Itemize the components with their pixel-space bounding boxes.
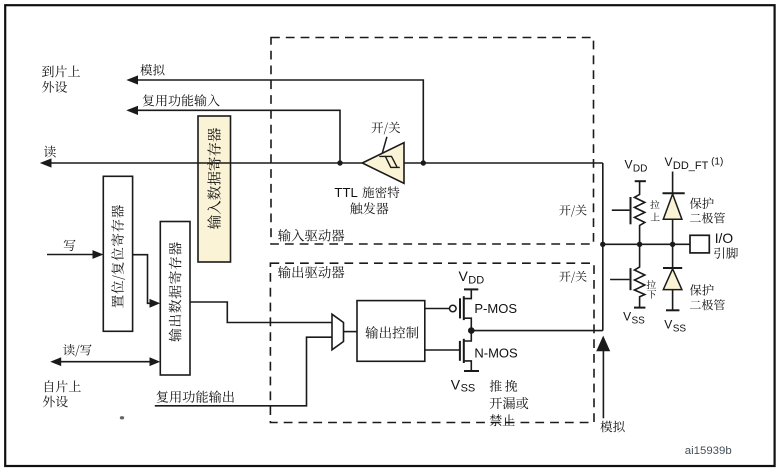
stray dot mark [120, 416, 124, 419]
label VSS (N-MOS) [451, 376, 475, 394]
label 外设 (top) [42, 81, 67, 93]
label 复用功能输入 [143, 94, 220, 106]
label 自片上 [45, 380, 81, 392]
label VSS (diode) [664, 317, 686, 334]
svg-text:(1): (1) [711, 156, 723, 167]
wire: output control to N-MOS gate [425, 349, 460, 351]
label 外设 (bottom) [43, 396, 68, 408]
label 输出数据寄存器 (rotated) [169, 242, 182, 342]
wire: write arrow 写 [47, 254, 94, 256]
label 二极管 (upper) [690, 212, 725, 223]
label I/O [715, 231, 734, 246]
label 上 (pull-up) [651, 213, 660, 221]
svg-text:V: V [665, 155, 673, 169]
wire: output data register to mux [190, 302, 332, 323]
label 模拟 (top) [140, 64, 164, 76]
label ai15939b [685, 445, 732, 457]
arrowhead into output data register [150, 299, 161, 308]
svg-text:SS: SS [673, 323, 687, 334]
set/reset register box 置位/复位寄存器 [103, 176, 132, 331]
svg-text:DD_FT: DD_FT [673, 160, 709, 172]
output control box 输出控制 [357, 301, 425, 362]
arrowhead analog left [126, 75, 138, 84]
wire: output stage to IO vertical [471, 330, 603, 332]
arrowhead read left [40, 158, 52, 167]
wire: right vertical bus [602, 163, 604, 331]
wire: schmitt input to right vertical [404, 162, 603, 164]
label 触发器 [350, 202, 388, 214]
label 输出驱动器 [278, 266, 344, 279]
schmitt on/off switch line [382, 137, 387, 154]
arrowhead AF input left [126, 106, 138, 115]
svg-text:V: V [664, 317, 672, 331]
label 开/关 (pull-up) [559, 205, 586, 217]
protection diode upper (VDD_FT) [663, 172, 685, 245]
svg-text:TTL: TTL [334, 185, 357, 200]
node diode [670, 242, 675, 247]
svg-text:V: V [459, 268, 469, 284]
label 拉 (pull-up) [650, 200, 659, 209]
arrowhead analog up [596, 336, 610, 352]
label 保护 (upper) [690, 198, 714, 209]
label N-MOS [474, 346, 518, 361]
svg-text:V: V [625, 158, 633, 172]
arrowhead write [93, 250, 104, 259]
label P-MOS [474, 301, 517, 316]
node analog tap [421, 160, 426, 165]
svg-text:DD: DD [468, 275, 484, 287]
pull-up resistor with switch (VDD) [612, 181, 646, 244]
label 输入驱动器 [278, 229, 344, 242]
svg-text:P-MOS: P-MOS [474, 301, 517, 316]
label 输出控制 [365, 326, 418, 339]
wire: analog bottom vertical 模拟 [602, 351, 604, 419]
wire: alternate function input 复用功能输入 [137, 110, 340, 163]
output data register box 输出数据寄存器 [160, 222, 190, 376]
schmitt hysteresis symbol [379, 156, 400, 167]
protection diode lower (VSS) [663, 244, 682, 310]
svg-text:V: V [451, 376, 461, 392]
I/O pin square [690, 235, 709, 253]
label 读 [44, 146, 56, 158]
label 施密特 [362, 186, 399, 198]
label 开/关 (schmitt) [371, 122, 400, 135]
output driver dashed box 输出驱动器 [270, 263, 594, 422]
label 拉 (pull-down) [647, 280, 656, 289]
svg-text:I/O: I/O [715, 231, 734, 246]
TTL schmitt trigger triangle [362, 143, 404, 184]
label 复用功能输出 [157, 390, 234, 402]
wire: output control to P-MOS gate [425, 308, 450, 310]
label 模拟 (bottom) [600, 421, 624, 433]
label 读/写 [63, 344, 91, 357]
input driver dashed box 输入驱动器 [271, 38, 594, 245]
svg-text:SS: SS [632, 315, 646, 326]
mux trapezoid [332, 314, 344, 350]
wire: read/write double arrow 读/写 [56, 361, 155, 363]
wire: AF output line 复用功能输出 [155, 337, 332, 406]
wire: I/O pin line [603, 243, 690, 245]
label 二极管 (lower) [690, 299, 725, 310]
node AF-input tap [337, 160, 342, 165]
transistor P-MOS [460, 289, 478, 330]
transistor N-MOS [460, 331, 479, 371]
input data register box 输入数据寄存器 [198, 116, 231, 262]
wire: analog to peripherals 模拟 [137, 80, 423, 163]
wire: read line 读 [50, 162, 362, 164]
node pullup [637, 242, 642, 247]
label 下 (pull-down) [647, 290, 656, 299]
P-MOS gate bubble [450, 305, 457, 312]
label 保护 (lower) [690, 284, 714, 295]
wire: set/reset to output register step [133, 255, 151, 304]
label 输入数据寄存器 (rotated) [207, 128, 221, 229]
label VDD (pull-up) [625, 158, 648, 175]
label TTL [334, 185, 357, 200]
label VDD_FT [665, 155, 724, 172]
svg-text:N-MOS: N-MOS [474, 346, 518, 361]
label 到片上 [42, 65, 80, 77]
arrowhead r/w left [50, 357, 61, 366]
label 开/关 (pull-down) [559, 271, 586, 283]
arrowhead r/w right [150, 357, 161, 366]
label 引脚 [714, 247, 738, 259]
node: push-pull output junction [468, 327, 475, 334]
label 禁止 [490, 414, 515, 426]
svg-text:SS: SS [461, 382, 476, 394]
label VSS (pull-down) [623, 309, 645, 326]
wire: mux output to output control [344, 331, 358, 333]
label 置位/复位寄存器 (rotated) [111, 205, 125, 308]
label VDD (P-MOS) [459, 268, 485, 287]
node IO-left [600, 242, 605, 247]
svg-text:V: V [623, 309, 631, 323]
label 推挽 [490, 380, 518, 392]
label 写 [64, 240, 76, 252]
svg-text:ai15939b: ai15939b [685, 445, 732, 457]
svg-text:DD: DD [633, 164, 647, 175]
pull-down resistor with switch (VSS) [610, 244, 645, 307]
label 开漏或 [490, 397, 529, 409]
